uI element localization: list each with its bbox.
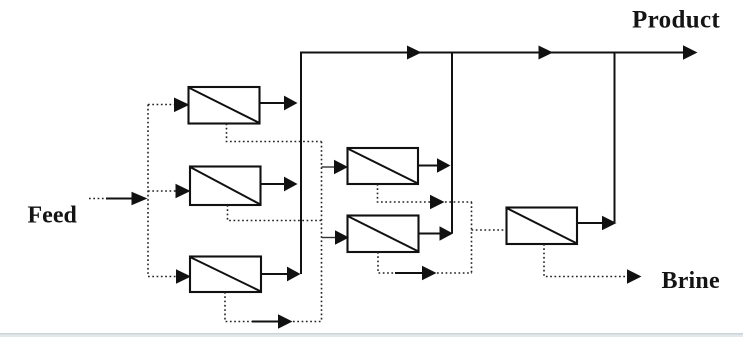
svg-text:Product: Product (632, 7, 720, 34)
arrow M6 permeate to riser (602, 216, 617, 230)
wire dotted feed branch to module M2 (148, 190, 177, 192)
wire M4 concentrate dotted after arrow (445, 201, 472, 203)
svg-text:Feed: Feed (28, 203, 78, 229)
arrow M3 permeate to riser (287, 267, 301, 282)
arrow on product line (middle) (539, 46, 554, 60)
wire stage2 feed branch to module M4 (322, 166, 337, 168)
arrow M2 permeate to riser (284, 177, 298, 192)
membrane module M2 (190, 167, 261, 206)
wire M5 permeate (419, 233, 442, 235)
wire M4 concentrate dotted drop (378, 184, 431, 202)
wire product header line (301, 52, 686, 54)
wire feed solid segment (106, 198, 134, 200)
wire M5 concentrate solid segment (395, 272, 423, 274)
arrow into module M1 (174, 98, 190, 113)
arrow M4 concentrate (430, 195, 445, 209)
wire M3 concentrate dotted after arrow (293, 321, 322, 323)
wire M1 concentrate dotted drop (227, 124, 322, 142)
arrow M4 permeate to riser (437, 158, 451, 172)
wire M5 concentrate dotted drop (378, 252, 396, 273)
wire M6 concentrate dotted drop to brine (544, 244, 627, 277)
wire stage2 feed branch to module M5 (322, 237, 338, 239)
wire stage3 feed dotted riser (471, 202, 473, 273)
arrow product outlet (683, 45, 698, 59)
wire M5 concentrate dotted after arrow (437, 272, 472, 274)
arrow feed inlet (132, 192, 148, 206)
wire permeate riser stage2 (451, 52, 453, 234)
wire M1 permeate (260, 102, 287, 104)
membrane module M1 (189, 87, 260, 124)
wire M6 permeate (577, 222, 603, 224)
wire feed distribution dotted riser (147, 105, 149, 277)
bottom edge gray band (0, 333, 743, 337)
wire permeate riser stage3 (614, 52, 616, 223)
wire M2 concentrate dotted drop (228, 205, 322, 221)
wire M4 permeate (418, 165, 439, 167)
wire permeate riser stage1 (300, 52, 302, 275)
wire M3 concentrate dotted drop (225, 292, 253, 322)
wire M3 concentrate solid segment (252, 321, 280, 323)
wire stage2 feed dotted riser (321, 142, 323, 322)
membrane module M4 (348, 148, 419, 184)
arrow into module M4 (334, 160, 348, 174)
arrow brine outlet (627, 269, 642, 283)
svg-text:Brine: Brine (662, 268, 720, 294)
membrane module M5 (348, 216, 419, 253)
arrow M1 permeate to riser (284, 96, 298, 111)
arrow M5 permeate to riser (440, 226, 454, 240)
arrow on product line (left) (407, 46, 422, 60)
wire feed dotted lead-in (89, 198, 107, 200)
membrane module M6 (507, 208, 578, 245)
membrane module M3 (190, 257, 261, 293)
arrow M3 concentrate (278, 314, 293, 328)
wire dotted feed branch to module M1 (148, 104, 176, 106)
arrow M5 concentrate (422, 266, 437, 280)
wire M2 permeate (261, 183, 287, 185)
wire stage3 feed dotted branch to module M6 (472, 229, 508, 231)
arrow into module M5 (335, 230, 349, 244)
arrow into module M2 (176, 184, 191, 199)
wire dotted feed branch to module M3 (148, 276, 177, 278)
wire M3 permeate (261, 273, 289, 275)
arrow into module M3 (176, 269, 191, 284)
